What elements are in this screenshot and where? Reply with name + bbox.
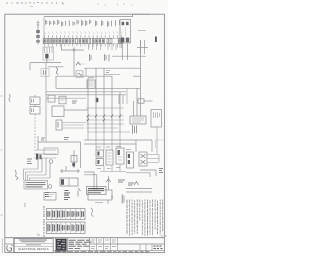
starter box ST1 — [96, 150, 104, 166]
vertical pair x118 — [119, 95, 123, 104]
relay contact CR2 — [30, 107, 40, 115]
note text line 13 (rotated) — [157, 201, 159, 234]
pencil mark above title box — [37, 234, 40, 237]
fuse block F1 enclosure — [43, 47, 54, 60]
scale cell dividers — [140, 244, 152, 251]
cluster bottom stub wires — [104, 165, 120, 172]
bus wire N1 — [61, 49, 84, 51]
corner wire W5 — [84, 172, 94, 190]
note text line 2 (rotated) — [129, 200, 131, 236]
contactor cluster CL1 — [34, 148, 58, 158]
junction box JB1 — [88, 190, 112, 200]
owner name text — [19, 240, 47, 242]
motor box M2 — [60, 178, 78, 186]
title block top rule — [5, 237, 165, 239]
relay coil squiggle K0 — [56, 68, 58, 75]
bus left drop wire — [43, 17, 45, 38]
note text line 15 (rotated) — [162, 200, 164, 232]
CL1 dark contacts — [36, 154, 42, 160]
bus wire N2 — [112, 55, 146, 57]
indicator assembly box B3 — [151, 110, 162, 128]
control transformer T1 — [120, 20, 131, 43]
T1 right dash — [138, 30, 146, 32]
chatter arrow 2 — [134, 182, 139, 186]
arrow lead — [78, 188, 81, 197]
bus wire N5 — [84, 67, 140, 69]
note text line 7 (rotated) — [141, 200, 143, 235]
disconnect switch S1 — [36, 21, 40, 45]
CR stack link wire — [34, 95, 36, 107]
coil K2 — [76, 71, 83, 77]
drawing number text — [154, 246, 163, 249]
panel enclosure box B1 — [56, 76, 112, 88]
ladder rung R3 — [86, 119, 124, 121]
M2 label marks — [65, 191, 69, 196]
riser wire from TB1 — [61, 44, 63, 50]
project text — [26, 244, 41, 246]
small aux box atop B1 — [76, 70, 78, 72]
drop wire x152 — [151, 140, 153, 152]
pilot light PL1 — [49, 160, 53, 164]
outer duplicate border fragment — [1, 238, 3, 253]
faint top-right marks — [97, 4, 133, 6]
rotated label left of B1 — [41, 69, 49, 77]
bottom strip rule — [53, 250, 164, 252]
bus wire N10 — [46, 97, 86, 99]
small circle device — [48, 185, 52, 189]
corner wire N3 drop — [29, 63, 31, 70]
branch box right — [138, 99, 153, 103]
faint frame tick right — [155, 140, 164, 148]
device box B2 — [52, 106, 64, 117]
capacitor branch wires — [137, 40, 148, 54]
tick mark — [24, 203, 27, 207]
rotated caption for tables — [43, 206, 45, 237]
page index ticks above strip — [162, 235, 166, 237]
label 2B — [72, 101, 77, 103]
wire x127 vertical — [126, 88, 128, 104]
device schedule table DT1 — [47, 209, 86, 220]
wire V74 — [73, 50, 75, 76]
junction bar — [60, 166, 80, 173]
limit switch LS1 — [44, 193, 56, 201]
note text line 4 (rotated) — [134, 200, 136, 234]
note text line 10 (rotated) — [149, 200, 151, 235]
terminal stub wires — [45, 35, 122, 38]
relay box RB1 — [116, 148, 124, 164]
label 18 — [159, 169, 163, 173]
junction J1 — [72, 48, 77, 53]
starter box ST2 — [106, 150, 113, 165]
fuse block wires — [45, 47, 53, 53]
ladder rung R6 — [88, 131, 130, 133]
dark label marks — [45, 193, 49, 197]
contact ticks on ladder — [87, 115, 121, 122]
title block mid rule — [90, 238, 165, 251]
label 1B1 — [118, 180, 125, 182]
ladder rung R1 — [86, 107, 124, 109]
dark tick component — [155, 37, 157, 43]
top bus wire — [44, 14, 150, 16]
arrow contact symbol — [76, 62, 80, 65]
bus wire N4 — [48, 66, 64, 68]
wire number labels above terminal strip — [46, 20, 120, 27]
label 1B — [128, 183, 134, 185]
ground symbol G1 — [45, 54, 48, 63]
note text line 14 (rotated) — [159, 200, 161, 235]
aux contact box C1 — [48, 95, 55, 102]
left margin hook mark — [15, 170, 18, 180]
note text line 3 (rotated) — [131, 200, 133, 235]
ladder rung R5 — [86, 127, 118, 129]
spare wire squiggle — [91, 208, 94, 217]
date cells row — [91, 247, 116, 249]
stair wire W4 — [30, 178, 51, 180]
title box rules — [14, 243, 53, 246]
left margin squiggle — [9, 94, 11, 102]
F2 tail wires — [62, 123, 86, 129]
stair wire W2 — [26, 172, 43, 180]
signature cell dividers — [97, 238, 118, 251]
pe stamp (dark seal) — [56, 239, 67, 251]
T2 output wires — [147, 155, 159, 163]
bus wire N7 — [56, 87, 140, 89]
feeder wire x38 — [37, 136, 39, 150]
wire x108 — [108, 176, 110, 190]
note text line 8 (rotated) — [144, 200, 146, 236]
drawing border frame — [5, 14, 165, 252]
notes header (rotated) — [122, 195, 124, 204]
signature cell texts — [91, 240, 116, 242]
relay K1 — [130, 116, 146, 124]
relay contact CR1 — [30, 97, 40, 105]
T1 secondary wires — [122, 43, 127, 60]
ladder rung R4 — [86, 123, 124, 125]
bus wire N9 — [46, 94, 126, 96]
handwritten header annotation — [6, 2, 64, 7]
wire W9 — [126, 188, 152, 190]
left feeder wire x45 — [45, 62, 47, 142]
rotated wire labels 3B — [90, 54, 110, 62]
wire W7 — [140, 170, 156, 176]
ladder vertical wires — [88, 68, 120, 132]
bus wire N13 — [84, 143, 136, 145]
bus wire N3 — [30, 62, 61, 64]
riser x86 — [85, 68, 87, 76]
B2 output wire — [64, 109, 88, 111]
chatter arrow — [106, 179, 111, 182]
certification text block — [69, 240, 92, 248]
bus wire N12 — [84, 139, 152, 141]
K1 rotated label — [133, 125, 137, 134]
title box — [14, 239, 53, 253]
drop wire x80 — [80, 142, 82, 168]
stair wire W3 — [28, 175, 47, 180]
note text line 5 (rotated) — [136, 200, 138, 234]
bus wire N11 — [38, 141, 81, 143]
label above N6 — [106, 71, 110, 73]
small meter box M1 — [87, 78, 95, 89]
device schedule table DT2 — [47, 222, 86, 234]
CL1 drop wires — [38, 158, 50, 178]
bus wire N8 — [46, 91, 126, 93]
wire x140 vertical — [140, 40, 142, 116]
stray mark left of notes — [111, 196, 113, 200]
stair wire W1 — [24, 169, 39, 180]
dark contact mark — [96, 98, 99, 102]
rotated G stamp — [7, 245, 13, 251]
note text line 1 (rotated) — [126, 200, 128, 234]
paper grain overlay — [0, 0, 168, 256]
label above bus N11 — [64, 138, 69, 140]
dashed wire below CR2 — [34, 114, 36, 148]
dashed link wire — [81, 63, 87, 65]
cluster bottom labels — [97, 168, 120, 169]
K1 feeder wires — [134, 88, 138, 116]
wire W8 — [126, 173, 150, 177]
lead ticks above terminals — [44, 32, 123, 35]
ladder tail wires — [88, 132, 120, 150]
JB1 under-label — [95, 200, 108, 204]
terminal table TT0 — [24, 181, 48, 190]
terminal drop wires — [45, 44, 122, 49]
label 4B1 left of cluster — [27, 159, 32, 163]
left margin fold marks — [1, 96, 3, 215]
note text line 9 (rotated) — [146, 200, 148, 236]
label text 4B — [41, 138, 45, 140]
wire x136 drop — [135, 140, 137, 152]
T-branch at x133 — [133, 75, 141, 77]
fuse F3 — [71, 150, 77, 168]
right feeder x157 — [156, 127, 158, 155]
aux device D1 — [59, 96, 66, 104]
bottom microtext row — [55, 251, 149, 253]
note text line 11 (rotated) — [152, 200, 154, 236]
transformer T2 — [139, 152, 147, 166]
note text line 12 (rotated) — [154, 200, 156, 230]
corner wire W6 — [84, 175, 97, 190]
terminal strip TB1 — [43, 38, 123, 44]
bus wire N6 — [104, 74, 120, 76]
mid drop wires — [89, 44, 121, 50]
fuse F2 — [56, 120, 62, 130]
dark label near LS1 — [64, 193, 70, 200]
cluster bottom link wire — [100, 171, 126, 173]
ladder rung R2 — [86, 115, 124, 117]
terminal stack TS1 — [127, 152, 134, 168]
note text line 6 (rotated) — [139, 200, 141, 221]
terminal table TT1 — [87, 187, 107, 195]
stamp border — [55, 238, 67, 251]
cluster labels row — [96, 147, 131, 150]
revision cell divider — [5, 238, 14, 253]
wire W10 — [126, 191, 152, 193]
